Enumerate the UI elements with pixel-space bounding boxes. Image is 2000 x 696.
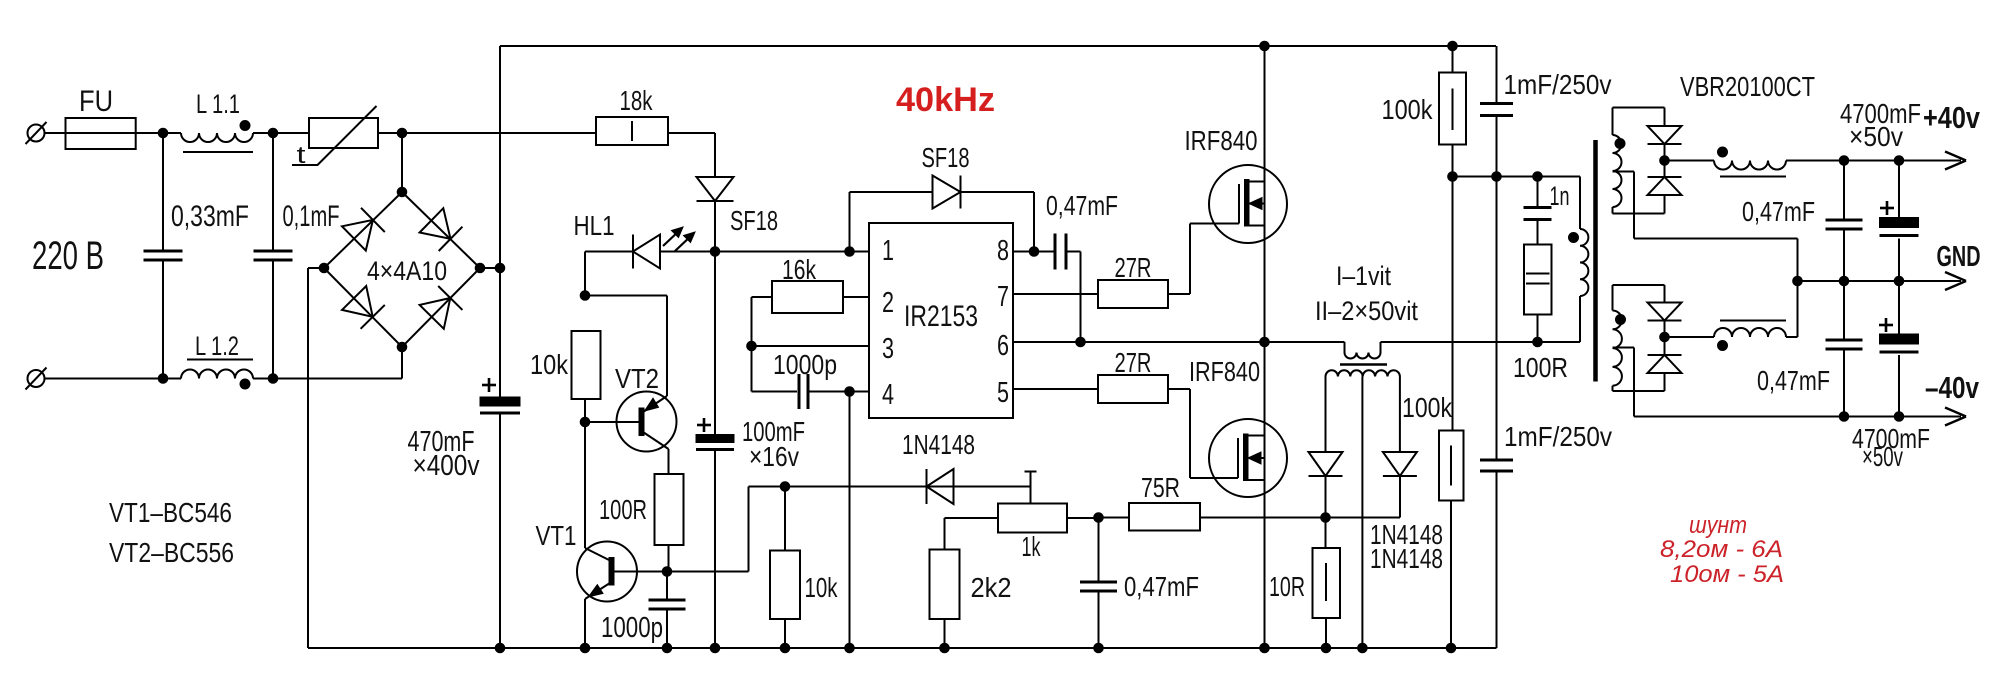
potentiometer 1k xyxy=(998,504,1067,533)
wire node to 10k mid xyxy=(784,487,786,551)
wire choke to GND riser xyxy=(1786,336,1798,338)
wire FU to node A xyxy=(136,132,163,134)
svg-text:1mF/250v: 1mF/250v xyxy=(1504,69,1612,100)
LED HL1 emission arrows xyxy=(663,230,680,246)
wire node E to bridge bottom riser (crosses DC- drop) xyxy=(273,378,402,380)
secondary upper center tap xyxy=(1613,171,1635,173)
wire pin4 xyxy=(850,391,870,393)
svg-text:×50v: ×50v xyxy=(1849,121,1903,152)
svg-text:100R: 100R xyxy=(599,494,647,525)
wire node G down to VT1 collector xyxy=(584,422,586,548)
input terminal X2 (neutral) xyxy=(28,370,45,387)
svg-text:×50v: ×50v xyxy=(1862,441,1903,472)
wire rectifier to output choke +40 xyxy=(1665,160,1715,162)
inductor L1.2 xyxy=(181,370,253,379)
LED HL1 xyxy=(585,251,633,253)
node VS bootstrap junction xyxy=(1076,337,1086,347)
resistor 75R xyxy=(1129,503,1200,531)
svg-text:IRF840: IRF840 xyxy=(1185,125,1258,156)
wire 100R snubber to VS node xyxy=(1537,315,1539,343)
wire 100k low vertical (crosses VS line) xyxy=(1452,177,1454,431)
bridge diode D4 (bottom-right) xyxy=(420,298,451,329)
svg-text:t: t xyxy=(297,142,306,169)
diode VBR20100CT D1 upper xyxy=(1648,126,1682,144)
wire node F to VT2 emitter branch xyxy=(585,295,667,297)
transformer primary winding xyxy=(1579,177,1581,230)
node pin8 junction xyxy=(1029,247,1039,257)
resistor 18k xyxy=(596,117,668,145)
svg-text:II–2×50vit: II–2×50vit xyxy=(1315,296,1418,326)
wire pin5 to 27R low xyxy=(1013,388,1098,390)
capacitor 0,33mF xyxy=(162,133,164,251)
capacitor 0,47mF out upper xyxy=(1843,161,1845,221)
secondary lower polarity dot xyxy=(1616,315,1626,325)
capacitor 0,47mF out lower xyxy=(1843,281,1845,340)
node F junction xyxy=(580,291,590,301)
bridge diode D1 (top-left) xyxy=(342,220,373,251)
svg-text:0,47mF: 0,47mF xyxy=(1046,190,1118,221)
node CT left diode junction xyxy=(1321,513,1331,523)
capacitor 470mF x400v xyxy=(482,384,496,387)
svg-text:10ом - 5А: 10ом - 5А xyxy=(1670,561,1784,588)
svg-text:–40v: –40v xyxy=(1925,370,1980,405)
svg-text:L 1.1: L 1.1 xyxy=(196,89,240,119)
capacitor 1mF/250v high xyxy=(1496,46,1498,104)
node E junction xyxy=(268,374,278,384)
resistor 10k (VT2 base) xyxy=(572,331,601,399)
svg-text:L 1.2: L 1.2 xyxy=(195,331,239,361)
svg-text:0,47mF: 0,47mF xyxy=(1757,365,1830,396)
CT primary winding I-1vit xyxy=(1344,342,1346,353)
wire pin8 xyxy=(1013,251,1055,253)
svg-text:VT2: VT2 xyxy=(615,363,659,394)
node ground 1000p xyxy=(662,643,672,653)
svg-text:7: 7 xyxy=(997,281,1009,313)
node ground pin4 xyxy=(845,643,855,653)
secondary upper polarity dot xyxy=(1615,139,1625,149)
wire L1.1 to node B xyxy=(253,132,273,134)
node H junction (VT1 base) xyxy=(662,567,672,577)
resistor 27R high xyxy=(1098,280,1168,308)
input terminal X1 (phase) xyxy=(28,125,45,142)
svg-text:27R: 27R xyxy=(1115,347,1152,378)
svg-text:+40v: +40v xyxy=(1923,100,1981,135)
wire VT2 collector to 100R xyxy=(668,449,670,474)
wire pin3 to node xyxy=(752,345,870,347)
diode SF18 bootstrap xyxy=(933,176,961,209)
svg-text:8: 8 xyxy=(997,235,1009,267)
secondary upper top lead xyxy=(1613,107,1665,109)
svg-text:4: 4 xyxy=(882,379,894,411)
wire 100k high leads xyxy=(1452,46,1454,73)
node A junction xyxy=(158,128,168,138)
capacitor 0,47mF bootstrap xyxy=(1054,234,1057,270)
wire 27R to Q1 gate xyxy=(1168,293,1190,295)
wire 10R to ground xyxy=(1325,618,1327,648)
wire -40v rail xyxy=(1634,416,1961,418)
svg-text:шунт: шунт xyxy=(1689,512,1747,539)
diode VD1 1N4148 CT left xyxy=(1309,452,1343,476)
node ground 0,47mF fb xyxy=(1094,643,1104,653)
transformer core xyxy=(1593,140,1598,382)
thermistor t xyxy=(309,118,378,148)
secondary lower center tap to -40v rail xyxy=(1613,347,1635,349)
secondary lower top lead xyxy=(1613,284,1665,286)
svg-text:1N4148: 1N4148 xyxy=(902,429,975,460)
inductor L1.1 xyxy=(181,133,253,142)
node ground VT1 xyxy=(580,643,590,653)
node ground 2k2 xyxy=(940,643,950,653)
svg-text:0,47mF: 0,47mF xyxy=(1742,196,1815,227)
svg-text:1k: 1k xyxy=(1022,531,1042,562)
svg-text:75R: 75R xyxy=(1141,472,1180,503)
wire 100R to node H xyxy=(668,545,670,572)
svg-text:8,2ом - 6А: 8,2ом - 6А xyxy=(1660,536,1783,563)
CT secondary winding xyxy=(1325,377,1327,453)
node GND 0,47mF xyxy=(1839,276,1849,286)
node pin1 bootstrap junction xyxy=(845,247,855,257)
wire 10k mid to ground xyxy=(784,619,786,648)
transformer secondary II upper winding xyxy=(1612,108,1614,136)
wire thermistor to node C xyxy=(378,132,402,134)
wire D1 to junction xyxy=(1664,145,1666,177)
wire VS line to snubber node (crosses 100k and 1mF verticals) xyxy=(1452,341,1580,343)
svg-text:VT1–BC546: VT1–BC546 xyxy=(109,497,232,528)
node GND ct xyxy=(1793,276,1803,286)
svg-text:16k: 16k xyxy=(782,254,817,285)
wire node C down to bridge top xyxy=(401,133,403,192)
wire SF18 to VCC node xyxy=(714,201,716,252)
svg-text:SF18: SF18 xyxy=(922,142,970,173)
svg-text:10k: 10k xyxy=(805,572,839,603)
node mid 1mF high xyxy=(1492,172,1502,182)
resistor 10R xyxy=(1313,548,1341,618)
node rectifier upper junction xyxy=(1660,156,1670,166)
arrow GND xyxy=(1945,272,1966,281)
transistor Q1 IRF840 high-side xyxy=(1209,165,1287,243)
capacitor 100mF x16v supply xyxy=(714,252,716,435)
resistor 100R xyxy=(655,474,684,545)
fuse FU xyxy=(66,118,136,149)
CT secondary center tap to ground (crosses 75R line) xyxy=(1361,377,1363,649)
wire primary return line xyxy=(1453,176,1581,178)
svg-text:VBR20100CT: VBR20100CT xyxy=(1680,71,1815,102)
bridge top vertex node xyxy=(397,187,407,197)
node rectifier lower junction xyxy=(1660,332,1670,342)
wire 18k to SF18 xyxy=(668,132,715,134)
bridge diode D3 (bottom-left) xyxy=(342,286,373,317)
wire Q2 drain-source vertical (crosses 75R line) xyxy=(1264,342,1266,648)
bridge left vertex node xyxy=(319,263,329,273)
svg-text:5: 5 xyxy=(997,377,1009,409)
resistor 2k2 xyxy=(930,550,960,620)
svg-text:1n: 1n xyxy=(1550,181,1570,211)
svg-text:4×4A10: 4×4A10 xyxy=(367,256,447,286)
node ground 10k mid xyxy=(780,643,790,653)
wire CT left diode to node xyxy=(1325,477,1327,518)
node snubber junction xyxy=(1533,172,1543,182)
wire pin7 to 27R xyxy=(1013,293,1098,295)
svg-text:GND: GND xyxy=(1937,241,1981,273)
wire node C to 18k (crosses DC+ riser) xyxy=(402,132,596,134)
wire pot right to node xyxy=(1067,517,1099,519)
svg-text:VT1: VT1 xyxy=(536,520,577,551)
transformer primary polarity dot xyxy=(1569,233,1579,243)
wire VT1 emitter to ground xyxy=(584,599,586,648)
wire Q1 drain-source vertical xyxy=(1264,46,1266,342)
node DC+ junction xyxy=(495,263,505,273)
wire L1.2 to node E xyxy=(253,378,273,380)
svg-text:0,33mF: 0,33mF xyxy=(171,200,249,233)
wire 75R to CT diodes (crosses Q2 vertical) xyxy=(1200,517,1400,519)
svg-text:1N4148: 1N4148 xyxy=(1370,543,1443,574)
svg-text:0,47mF: 0,47mF xyxy=(1124,571,1199,602)
node -40 0,47mF xyxy=(1839,412,1849,422)
transistor VT2 (BC556) xyxy=(617,392,677,452)
arrow -40v xyxy=(1945,408,1966,417)
svg-text:1000p: 1000p xyxy=(601,612,663,644)
svg-text:SF18: SF18 xyxy=(730,205,778,236)
svg-text:HL1: HL1 xyxy=(574,210,615,241)
node VS half-bridge junction xyxy=(1260,337,1270,347)
wire node A to L1.1 xyxy=(163,132,181,134)
wire node to 75R xyxy=(1099,517,1130,519)
svg-text:I–1vit: I–1vit xyxy=(1336,261,1391,291)
arrow +40v xyxy=(1945,152,1966,161)
svg-text:2: 2 xyxy=(882,287,894,319)
wire bridge left vertex to DC- drop (crosses AC rail) xyxy=(308,267,324,269)
svg-text:10k: 10k xyxy=(530,349,569,380)
node top rail Q1 drain xyxy=(1260,41,1270,51)
node -40 4700mF xyxy=(1894,412,1904,422)
wire pot left to 2k2 xyxy=(945,517,999,519)
node mid 100k high xyxy=(1448,172,1458,182)
svg-text:220 В: 220 В xyxy=(32,234,104,278)
svg-text:0,1mF: 0,1mF xyxy=(283,200,340,233)
diode VD 1N4148 feedback xyxy=(927,469,954,504)
node +40 0,47mF xyxy=(1839,156,1849,166)
wire terminal1 to FU xyxy=(45,132,66,134)
wire bridge right vertex to DC+ riser xyxy=(480,267,500,269)
bridge bottom vertex node xyxy=(397,342,407,352)
transistor Q2 IRF840 low-side xyxy=(1209,419,1287,497)
wire node to 10R xyxy=(1325,518,1327,549)
resistor 100R snubber xyxy=(1524,245,1552,315)
node top rail 100k xyxy=(1448,41,1458,51)
node +40 4700mF xyxy=(1894,156,1904,166)
wire 2k2 to ground xyxy=(944,619,946,648)
wire 16k to pin3 node xyxy=(752,296,773,298)
wire ground rail xyxy=(308,647,1497,649)
resistor 10k mid xyxy=(770,551,800,620)
svg-text:VT2–BC556: VT2–BC556 xyxy=(109,537,234,568)
bridge frame 4x4A10 xyxy=(324,192,480,347)
node ground 10R xyxy=(1321,643,1331,653)
capacitor 1000p VT1 xyxy=(666,572,668,601)
node snubber bottom junction xyxy=(1533,337,1543,347)
wire top +310V rail xyxy=(500,45,1496,47)
wire HL1 corner down to node F xyxy=(584,252,586,296)
capacitor 4700mF lower xyxy=(1879,324,1893,327)
bridge diode D2 (top-right) xyxy=(420,208,451,239)
wire terminal2 to L1.2 xyxy=(45,378,164,380)
wire feedback line pin-ct xyxy=(749,486,1031,488)
capacitor 0,47mF feedback xyxy=(1098,518,1100,583)
resistor 100k low xyxy=(1439,431,1464,501)
svg-text:27R: 27R xyxy=(1115,252,1152,283)
wire DC+ riser x=500 xyxy=(499,46,501,397)
capacitor 1000p timing xyxy=(798,374,801,409)
svg-text:×16v: ×16v xyxy=(749,441,799,472)
wire D3 to junction xyxy=(1664,322,1666,356)
capacitor 1mF/250v low xyxy=(1480,459,1513,462)
resistor 27R low xyxy=(1098,375,1168,403)
wire pin6 VS line xyxy=(1013,341,1345,343)
capacitor 1n snubber xyxy=(1537,177,1539,208)
node VCC junction xyxy=(710,247,720,257)
diode SF18 startup xyxy=(697,177,734,201)
svg-text:2k2: 2k2 xyxy=(971,572,1012,603)
wire bootstrap riser xyxy=(849,192,851,252)
secondary upper bottom lead xyxy=(1664,195,1666,214)
IC U1 IR2153 body xyxy=(869,223,1013,418)
bridge right vertex node xyxy=(475,263,485,273)
wire pin4 node to ground (crosses feedback line) xyxy=(849,392,851,649)
node ground CT tap xyxy=(1358,643,1368,653)
wire pin2 to 16k xyxy=(843,296,869,298)
output choke L- with polarity dot xyxy=(1720,320,1786,322)
transistor VT1 (BC546) xyxy=(577,542,637,602)
svg-text:FU: FU xyxy=(79,85,113,118)
wire node B to thermistor xyxy=(273,132,309,134)
wire 10k to node G xyxy=(584,399,586,422)
node GND 4700mF xyxy=(1894,276,1904,286)
node ground 470mF xyxy=(495,643,505,653)
svg-text:IRF840: IRF840 xyxy=(1189,356,1260,387)
node 10k-mid junction xyxy=(780,482,790,492)
resistor 16k xyxy=(772,281,843,313)
node 75R junction xyxy=(1094,513,1104,523)
wire 100k low to ground xyxy=(1450,501,1452,649)
wire 1mF low vertical (crosses VS line) xyxy=(1496,177,1498,461)
svg-text:1: 1 xyxy=(882,235,894,267)
wire rectifier lower to output choke xyxy=(1665,336,1715,338)
svg-text:1mF/250v: 1mF/250v xyxy=(1504,421,1612,452)
wire bootstrap diode to pin8 node xyxy=(961,191,1035,193)
node ground Q2 source xyxy=(1260,643,1270,653)
node ground 100k low xyxy=(1446,643,1456,653)
secondary lower bottom lead (crosses center tap) xyxy=(1664,373,1666,391)
capacitor 4700mF upper xyxy=(1880,207,1894,210)
svg-text:6: 6 xyxy=(997,330,1009,362)
svg-text:100k: 100k xyxy=(1402,392,1453,423)
node ground 100mF xyxy=(710,643,720,653)
svg-text:IR2153: IR2153 xyxy=(904,300,978,333)
wire pin3 node down to CT cap xyxy=(751,346,753,392)
svg-text:×400v: ×400v xyxy=(413,450,480,482)
svg-text:40kHz: 40kHz xyxy=(896,81,995,119)
diode VBR20100CT D4 lower xyxy=(1648,355,1682,373)
node pin3 junction xyxy=(747,341,757,351)
CT core xyxy=(1340,363,1387,366)
transformer secondary II lower winding xyxy=(1612,285,1614,311)
svg-text:100R: 100R xyxy=(1513,352,1568,383)
svg-text:18k: 18k xyxy=(620,85,654,116)
wire +40v rail xyxy=(1786,160,1961,162)
wire VT1 base to feedback riser xyxy=(667,571,749,573)
diode VBR20100CT D2 upper xyxy=(1648,177,1682,195)
wire VCC node to pin1 xyxy=(715,251,869,253)
wire GND rail xyxy=(1798,280,1962,282)
node pin4 junction xyxy=(845,387,855,397)
node C junction xyxy=(397,128,407,138)
node B junction xyxy=(268,128,278,138)
diode VBR20100CT D3 lower xyxy=(1648,303,1682,321)
svg-text:10R: 10R xyxy=(1269,571,1305,602)
wire 27R to Q2 gate xyxy=(1168,388,1190,390)
resistor 100k high xyxy=(1439,73,1466,145)
svg-text:1000p: 1000p xyxy=(773,349,837,380)
output choke L+ with polarity dot xyxy=(1714,161,1786,170)
node D junction xyxy=(158,374,168,384)
node G junction (VT2 base / VT1 collector) xyxy=(580,417,590,427)
svg-text:100k: 100k xyxy=(1382,94,1434,125)
capacitor 0,1mF xyxy=(272,133,274,251)
wire node D to L1.2 xyxy=(163,378,181,380)
svg-text:3: 3 xyxy=(882,333,894,365)
diode VD2 1N4148 CT right xyxy=(1383,452,1417,476)
